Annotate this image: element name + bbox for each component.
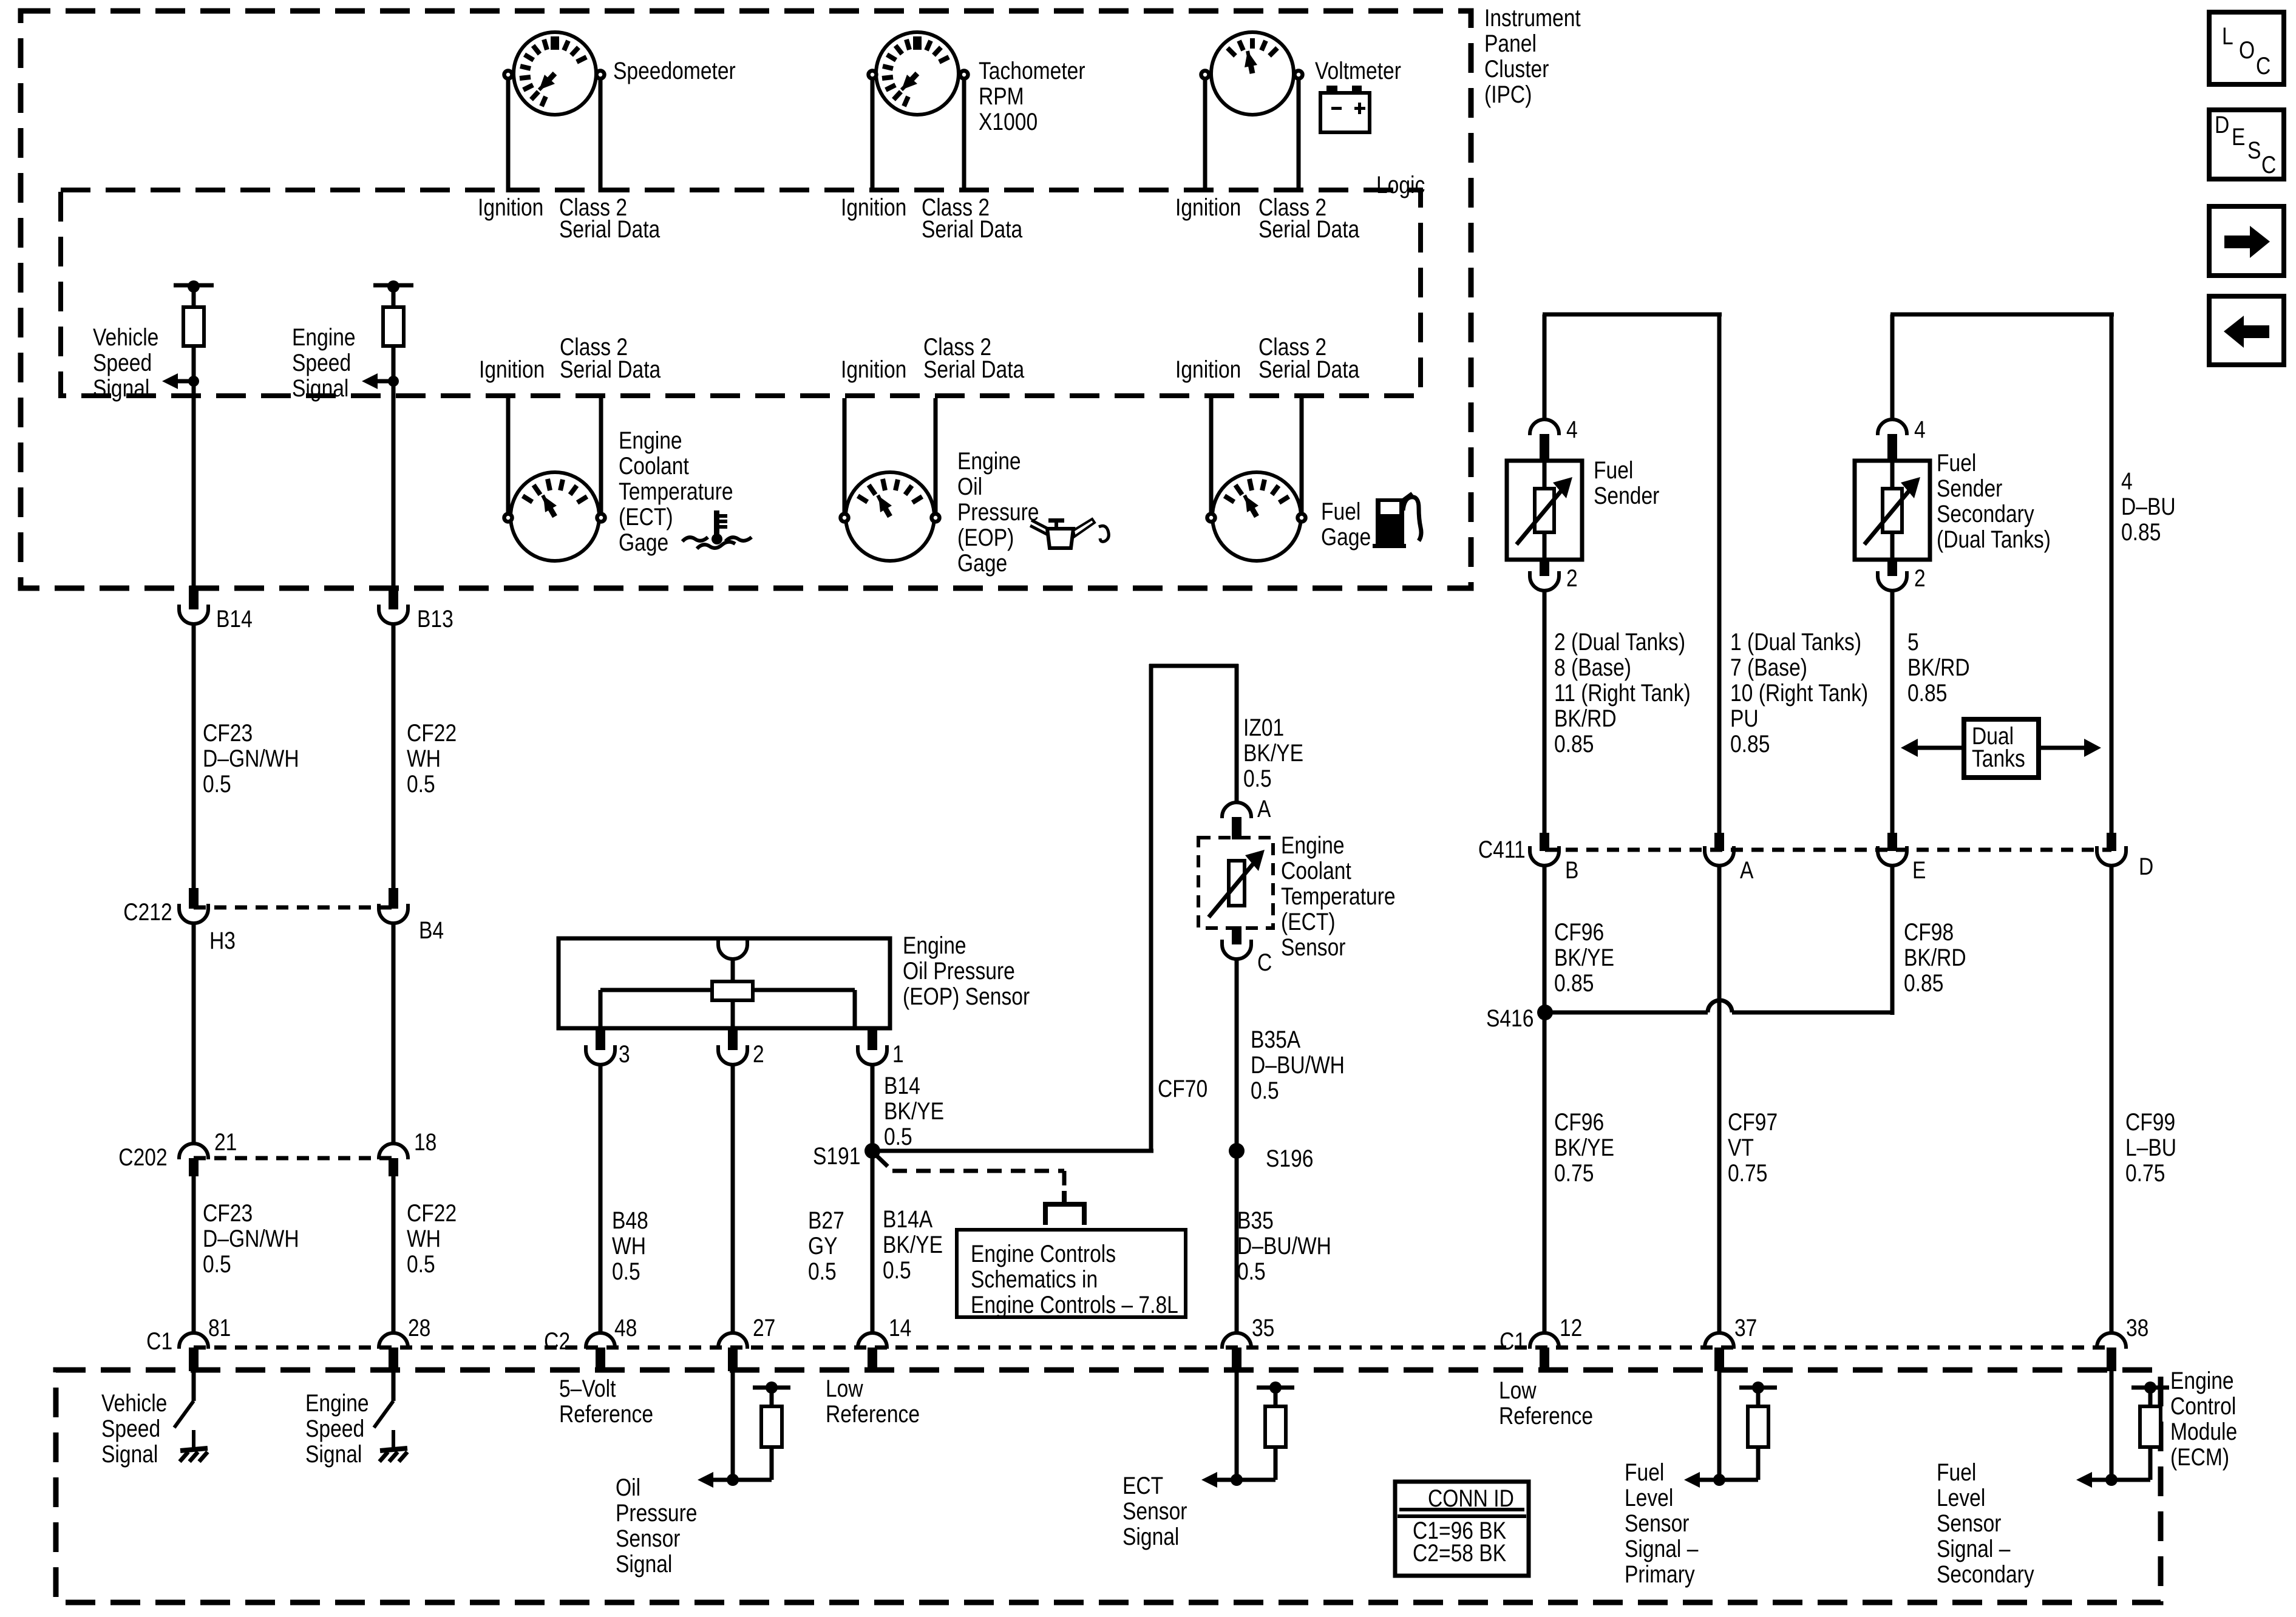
wire ECT gage right xyxy=(599,398,603,513)
label wire B35 xyxy=(1237,1208,1331,1284)
label CF70 xyxy=(1158,1076,1207,1102)
connector C411 A stub xyxy=(1714,833,1724,851)
label Ignition (tachometer) xyxy=(841,195,906,220)
label Engine Speed Signal (IPC) xyxy=(292,325,356,401)
oil pressure sensor signal arrow line xyxy=(712,1478,733,1482)
label EOP pin 1 xyxy=(892,1042,904,1067)
connector C212 B4 stub xyxy=(389,888,398,909)
wire EOP gage left xyxy=(843,398,847,513)
wire EOP internal left xyxy=(600,988,712,992)
label Oil Pressure Sensor Signal xyxy=(616,1475,697,1577)
connector C411 A cup xyxy=(1705,846,1734,866)
oil pressure sensor signal junction dot xyxy=(727,1474,739,1486)
label wire 2 dual tanks BK/RD xyxy=(1554,629,1691,757)
ECT gage xyxy=(511,472,599,561)
label Vehicle Speed Signal (IPC) xyxy=(93,325,158,401)
label wire 4 D-BU xyxy=(2121,469,2176,545)
wire oil pressure sensor signal resistor down xyxy=(770,1447,774,1480)
label Engine Coolant Temperature (ECT) Gage xyxy=(619,428,733,555)
label LOC letters xyxy=(2222,24,2233,49)
wire voltmeter right xyxy=(1297,80,1301,192)
connector C1 pin28 cap xyxy=(379,1333,408,1349)
EOP pin 2 cup xyxy=(718,1045,747,1065)
EOP sensor box xyxy=(559,938,890,1028)
connector C2 pin14 cap xyxy=(858,1333,887,1349)
voltmeter right terminal xyxy=(1295,71,1303,79)
wire vehicle speed resistor down xyxy=(192,346,196,588)
label Tachometer RPM X1000 xyxy=(979,58,1085,135)
wire vehicle speed T-bar to resistor xyxy=(192,287,196,307)
label pin B4 xyxy=(419,918,444,943)
fuel level primary internal T-bar xyxy=(1739,1386,1777,1390)
label Fuel Gage xyxy=(1321,499,1371,550)
label pin A (C411) xyxy=(1740,858,1753,883)
label B13 xyxy=(417,606,453,632)
label pin 18 xyxy=(414,1130,436,1155)
wire fuel level secondary T-bar to resistor xyxy=(2148,1388,2153,1406)
wire fuel sender pin2 to C411 xyxy=(1543,591,1547,833)
label Ignition (ECT gage) xyxy=(479,357,545,382)
connector C2 pin14 stub xyxy=(868,1347,877,1371)
wire CF22 C212 to C202 xyxy=(392,923,396,1145)
label pin E xyxy=(1912,858,1926,883)
DESC box xyxy=(2209,110,2284,179)
oil pressure sensor signal T-bar dot xyxy=(766,1381,778,1394)
wire S191 to CF70 riser xyxy=(872,1149,1153,1153)
ECM dashed box (Engine Control Module) xyxy=(56,1370,2161,1602)
voltmeter gauge xyxy=(1211,32,1294,115)
label wire B14A xyxy=(883,1207,943,1283)
wire tachometer right xyxy=(962,80,966,192)
fuel level secondary arrow head xyxy=(2076,1472,2092,1488)
connector C411 dotted line xyxy=(1545,848,2111,852)
label EOP pin 3 xyxy=(619,1042,630,1067)
label S191 xyxy=(813,1144,860,1169)
label wire B35A xyxy=(1251,1027,1345,1103)
wire CF99 D to C1 xyxy=(2110,866,2114,1335)
connector C cup xyxy=(1222,940,1251,959)
label pin 27 xyxy=(753,1315,775,1341)
connector C202 pin21 stub xyxy=(189,1158,199,1176)
wire B27 pin2 to C2 xyxy=(731,1065,735,1335)
label Low Reference (pin12) xyxy=(1499,1378,1593,1429)
wire CF70 top link xyxy=(1149,664,1238,668)
dual tanks box xyxy=(1964,719,2039,778)
label Engine Oil Pressure (EOP) Sensor xyxy=(903,933,1030,1009)
label ECT Sensor Signal xyxy=(1123,1473,1187,1550)
label Dual Tanks xyxy=(1972,725,2025,770)
wire pin81 into ECM xyxy=(192,1371,196,1401)
connector C1/C2 dotted line xyxy=(194,1346,2111,1350)
connector C212 dotted line xyxy=(194,906,393,910)
ECT sensor signal arrow head xyxy=(1201,1472,1217,1488)
wire S416 bus left xyxy=(1545,1011,1708,1015)
wire EOP internal center down xyxy=(731,1000,735,1028)
wire CF70 riser xyxy=(1149,664,1153,1151)
connector C202 pin18 cap xyxy=(379,1144,408,1159)
fuel level secondary internal T-bar xyxy=(2131,1386,2169,1390)
connector C2 pin27 stub xyxy=(728,1347,738,1371)
resistor EOP sensor element xyxy=(712,981,753,1000)
label wire CF22 middle xyxy=(407,1201,457,1277)
label pin C xyxy=(1257,950,1272,975)
label Ignition (speedometer) xyxy=(478,195,543,220)
wire CF23 B14 to C212 xyxy=(192,624,196,888)
connector C212 B4 cup xyxy=(379,904,408,923)
Logic dashed box xyxy=(61,190,1421,396)
EOP sensor top cup xyxy=(718,940,747,959)
wire CF23 C212 to C202 xyxy=(192,923,196,1145)
connector C2 pin27 cap xyxy=(718,1333,747,1349)
oil can icon xyxy=(1047,529,1073,548)
fuel sender box xyxy=(1507,461,1582,560)
fuel sender top loop xyxy=(1543,313,1722,317)
label Class 2 (ECT gage) xyxy=(560,334,628,360)
label Voltmeter xyxy=(1315,58,1401,84)
vehicle speed signal switch xyxy=(174,1401,194,1428)
resistor engine speed signal xyxy=(383,307,404,346)
label pin B xyxy=(1565,858,1578,883)
speedometer left terminal xyxy=(504,71,512,79)
label Class 2 (EOP gage) xyxy=(923,334,991,360)
label wire CF96 0.75 xyxy=(1554,1110,1614,1186)
fuel sender wire through xyxy=(1543,461,1547,560)
speedometer right terminal xyxy=(597,71,605,79)
connector A cap xyxy=(1222,802,1251,818)
label C2 xyxy=(544,1329,570,1354)
EOP pin 3 stub xyxy=(596,1028,605,1050)
label Fuel Sender Secondary xyxy=(1937,450,2051,552)
label wire IZ01 xyxy=(1243,715,1303,792)
vehicle speed signal junction dot xyxy=(188,376,199,387)
wire EOP gage right xyxy=(934,398,938,513)
wire CF96 to S416 xyxy=(1543,866,1547,1012)
label pin 35 xyxy=(1252,1315,1274,1341)
ECT sensor variable resistor xyxy=(1229,861,1245,906)
dual tanks right arrow xyxy=(2039,746,2088,750)
engine speed signal switch xyxy=(374,1401,393,1428)
connector C1 pin12 cap xyxy=(1530,1333,1559,1349)
connector C2 pin48 stub xyxy=(596,1347,605,1371)
wire fuel level secondary resistor down xyxy=(2148,1447,2153,1480)
wire ECT sensor signal resistor down xyxy=(1274,1447,1278,1480)
resistor oil pressure sensor signal pull-up xyxy=(761,1406,782,1447)
label wire CF97 0.75 xyxy=(1728,1110,1778,1186)
wire fuel gage left xyxy=(1209,398,1214,513)
connector A stub xyxy=(1232,817,1241,839)
fuel gage xyxy=(1212,472,1301,561)
connector C stub xyxy=(1232,926,1241,944)
fuel level primary arrow line xyxy=(1699,1478,1719,1482)
fuel level primary junction dot xyxy=(1713,1474,1725,1486)
label pin 12 xyxy=(1560,1315,1582,1341)
label Fuel Level Sensor Signal Primary xyxy=(1625,1460,1698,1587)
fuel level secondary arrow line xyxy=(2091,1478,2111,1482)
EOP pin 1 stub xyxy=(868,1028,877,1050)
vehicle speed signal arrow head xyxy=(162,373,178,389)
label Class 2 Serial Data (speedometer) xyxy=(559,195,627,220)
fuel sender secondary pin 2 cup xyxy=(1878,571,1907,591)
vehicle speed ground lead xyxy=(192,1430,195,1451)
label Fuel Level Sensor Signal Secondary xyxy=(1937,1460,2034,1587)
label pin 38 xyxy=(2126,1315,2148,1341)
wire EOP cup to resistor xyxy=(731,959,735,981)
speedometer gauge xyxy=(514,32,596,115)
engine speed signal T-bar xyxy=(373,283,413,288)
connector C411 E stub xyxy=(1887,833,1897,851)
label S196 xyxy=(1266,1146,1313,1171)
fuel sender secondary box xyxy=(1855,461,1930,560)
splice S191 dot xyxy=(864,1143,880,1159)
connector B13 cup xyxy=(379,605,408,624)
tachometer gauge xyxy=(876,32,959,115)
S191 dashed reference line xyxy=(877,1156,892,1171)
label EOP pin 2 xyxy=(753,1042,764,1067)
EOP pin 1 cup xyxy=(858,1045,887,1065)
label Vehicle Speed Signal (ECM) xyxy=(101,1391,167,1467)
connector C1 pin12 stub xyxy=(1540,1347,1549,1371)
label pin 37 xyxy=(1734,1315,1757,1341)
wire S416 bus right xyxy=(1732,1011,1892,1015)
label C1 left xyxy=(146,1329,172,1354)
wire ECT gage left xyxy=(506,398,511,513)
label pin 48 xyxy=(614,1315,637,1341)
fuel sender secondary pin 4 cap xyxy=(1878,419,1907,435)
wire CF96 S416 to C1 xyxy=(1543,1012,1547,1335)
wire oil pressure sensor signal T-bar to resistor xyxy=(770,1388,774,1406)
engine speed signal arrow line xyxy=(374,379,393,384)
label wire CF23 upper xyxy=(203,720,299,797)
connector C1 pin38 cap xyxy=(2097,1333,2126,1349)
resistor fuel level primary pull-up xyxy=(1748,1406,1768,1447)
wire voltmeter left xyxy=(1203,80,1207,192)
voltmeter left terminal xyxy=(1201,71,1209,79)
wire fuel level secondary pin into ECM xyxy=(2110,1371,2114,1480)
fuel sender pin 2 cup xyxy=(1530,571,1559,591)
wire ECT sensor signal bottom link xyxy=(1237,1478,1275,1482)
label Instrument Panel Cluster (IPC) xyxy=(1484,5,1581,107)
connector C1 pin28 stub xyxy=(389,1347,398,1371)
engine controls reference box xyxy=(957,1230,1186,1317)
fuel sender secondary pin 2 stub xyxy=(1887,560,1897,576)
splice S196 dot xyxy=(1229,1143,1245,1159)
label pin A xyxy=(1257,796,1271,822)
wire pin2 secondary to C411 xyxy=(1890,591,1895,833)
wire pin28 into ECM xyxy=(392,1371,396,1401)
fuel level secondary T-bar dot xyxy=(2144,1381,2156,1394)
ECT gage right terminal xyxy=(597,514,605,522)
fuel sender secondary variable resistor xyxy=(1883,489,1902,532)
fuel gage left terminal xyxy=(1207,514,1215,522)
fuel sender variable resistor xyxy=(1535,489,1554,532)
battery icon xyxy=(1320,93,1370,132)
tachometer left terminal xyxy=(869,71,877,79)
label B14 xyxy=(216,606,253,632)
label secondary sender pin 4 xyxy=(1914,417,1926,442)
label Serial Data (ECT gage) xyxy=(560,357,661,382)
label wire CF99 0.75 xyxy=(2125,1110,2176,1186)
label sender pin 2 xyxy=(1566,566,1578,591)
fuel sender secondary wire through xyxy=(1890,461,1895,560)
connector C1 pin81 stub xyxy=(189,1347,199,1371)
tachometer right terminal xyxy=(960,71,968,79)
wire B35A C to S196 xyxy=(1235,959,1239,1335)
fuel sender pin 4 stub xyxy=(1540,434,1549,461)
connector C212 H3 stub xyxy=(189,888,199,909)
wire IZ01 top xyxy=(1235,664,1239,804)
label Engine Speed Signal (ECM) xyxy=(305,1391,369,1467)
connector C202 dotted line xyxy=(194,1156,393,1161)
wire fuel level primary pin into ECM xyxy=(1717,1371,1722,1480)
fuel sender secondary top loop xyxy=(1890,313,2114,317)
resistor fuel level secondary pull-up xyxy=(2140,1406,2161,1447)
label CONN ID header xyxy=(1428,1486,1514,1511)
resistor ECT sensor signal pull-up xyxy=(1265,1406,1286,1447)
fuel gage right terminal xyxy=(1298,514,1306,522)
wire fuel level primary resistor down xyxy=(1756,1447,1761,1480)
connector C1 pin38 stub xyxy=(2107,1347,2116,1371)
connector C1 pin37 cap xyxy=(1705,1333,1734,1349)
label Serial Data (fuel gage) xyxy=(1258,357,1359,382)
label C411 xyxy=(1478,837,1526,863)
ECT sensor signal arrow line xyxy=(1216,1478,1237,1482)
label secondary sender pin 2 xyxy=(1914,566,1926,591)
label wire B27 xyxy=(808,1208,844,1284)
connector B14 stub xyxy=(189,586,199,609)
connector C1 pin81 cap xyxy=(179,1333,208,1349)
label pin 21 xyxy=(214,1130,237,1155)
coolant temperature icon xyxy=(714,510,719,536)
EOP pin 3 cup xyxy=(586,1045,615,1065)
label Engine Oil Pressure (EOP) Gage xyxy=(957,449,1039,576)
label wire CF23 middle xyxy=(203,1201,299,1277)
label DESC letters xyxy=(2215,112,2229,138)
label wire B14 BK/YE xyxy=(884,1073,944,1150)
wire EOP internal right xyxy=(753,988,855,992)
wire speedometer right to logic line xyxy=(599,80,603,192)
wire hop over CF97 xyxy=(1708,1000,1732,1012)
connector B14 cup xyxy=(179,605,208,624)
oil pressure sensor signal arrow head xyxy=(698,1472,713,1488)
label C212 xyxy=(124,900,172,925)
connector C411 D stub xyxy=(2107,833,2116,851)
label Class 2 Serial Data (voltmeter) xyxy=(1258,195,1326,220)
label wire CF22 upper xyxy=(407,720,457,797)
label Ignition (EOP gage) xyxy=(841,357,906,382)
label Class 2 Serial Data (tachometer) xyxy=(922,195,990,220)
label CONN ID table rows xyxy=(1413,1520,1506,1565)
wire ECT sensor signal pin into ECM xyxy=(1235,1371,1239,1480)
connector C411 B cup xyxy=(1530,846,1559,866)
engine speed signal arrow head xyxy=(362,373,378,389)
label C202 xyxy=(119,1145,168,1170)
ECT sensor signal internal T-bar xyxy=(1257,1386,1294,1390)
connector C2 pin48 cap xyxy=(586,1333,615,1349)
label Engine Coolant Temperature (ECT) Sensor xyxy=(1281,833,1396,960)
vehicle speed signal T-bar xyxy=(174,283,214,288)
label Fuel Sender xyxy=(1594,458,1659,509)
back arrow box xyxy=(2209,296,2284,365)
label pin 14 xyxy=(889,1315,911,1341)
label engine controls reference xyxy=(971,1241,1178,1318)
wire engine speed T-bar to resistor xyxy=(392,287,396,307)
fuel level secondary junction dot xyxy=(2105,1474,2118,1486)
ground symbol (engine speed) xyxy=(380,1448,407,1451)
wire oil pressure sensor signal bottom link xyxy=(733,1478,772,1482)
forward arrow box xyxy=(2209,206,2284,276)
wire fuel level primary T-bar to resistor xyxy=(1756,1388,1761,1406)
CONN ID table box xyxy=(1395,1482,1529,1576)
engine speed ground lead xyxy=(392,1430,395,1451)
label pin H3 xyxy=(209,928,236,954)
connector C202 pin18 stub xyxy=(389,1158,398,1176)
EOP gage left terminal xyxy=(841,514,849,522)
wire CF22 C202 to C1 xyxy=(392,1176,396,1335)
label C1 right xyxy=(1500,1329,1526,1354)
label wire 5 BK/RD xyxy=(1907,629,1970,706)
wire oil pressure sensor signal pin into ECM xyxy=(731,1371,735,1480)
label 5-Volt Reference xyxy=(559,1376,653,1427)
resistor vehicle speed signal xyxy=(183,307,204,346)
label Low Reference (pin14) xyxy=(826,1376,920,1427)
vehicle speed signal arrow line xyxy=(174,379,194,384)
wire B48 pin3 to C2 xyxy=(599,1065,603,1335)
ECT gage left terminal xyxy=(504,514,512,522)
ground symbol (vehicle speed) xyxy=(180,1448,208,1451)
vehicle speed signal T-bar junction dot xyxy=(188,280,200,293)
label Ignition (fuel gage) xyxy=(1175,357,1241,382)
label wire CF98 0.85 xyxy=(1904,920,1966,996)
label wire CF96 0.85 xyxy=(1554,920,1614,996)
fuel sender secondary pin 4 stub xyxy=(1887,434,1897,461)
connector B13 stub xyxy=(389,586,398,609)
connector C411 D cup xyxy=(2097,846,2126,866)
IPC dashed box (Instrument Panel Cluster) xyxy=(21,11,1471,588)
wire fuel gage right xyxy=(1300,398,1304,513)
fuel level primary arrow head xyxy=(1684,1472,1700,1488)
wire B14 pin1 to S191 xyxy=(871,1065,875,1335)
label pin D xyxy=(2139,854,2153,880)
engine speed signal T-bar junction dot xyxy=(387,280,399,293)
connector C411 E cup xyxy=(1878,846,1907,866)
engine speed signal junction dot xyxy=(388,376,399,387)
wire ECT sensor signal T-bar to resistor xyxy=(1274,1388,1278,1406)
EOP gage xyxy=(846,472,934,561)
wire CF97 to C1 xyxy=(1717,866,1722,1335)
reference bracket xyxy=(1045,1191,1084,1225)
LOC box xyxy=(2209,12,2284,84)
wire fuel level secondary bottom link xyxy=(2111,1478,2150,1482)
wire CF22 B13 to C212 xyxy=(392,624,396,888)
connector C1 pin37 stub xyxy=(1714,1347,1724,1371)
connector C2 pin35 stub xyxy=(1232,1347,1241,1371)
label Class 2 (fuel gage) xyxy=(1258,334,1326,360)
wire speedometer left to logic line xyxy=(506,80,511,192)
wire CF23 C202 to C1 xyxy=(192,1176,196,1335)
oil pressure sensor signal internal T-bar xyxy=(753,1386,790,1390)
wire engine speed resistor down xyxy=(392,346,396,588)
wire tachometer left xyxy=(871,80,875,192)
connector C411 B stub xyxy=(1540,833,1549,851)
label wire B48 xyxy=(612,1208,648,1284)
label Engine Control Module (ECM) xyxy=(2170,1368,2237,1470)
connector C202 pin21 cap xyxy=(179,1144,208,1159)
wire CF98 E to S416 bus xyxy=(1890,866,1895,1015)
connector C2 pin35 cap xyxy=(1222,1333,1251,1349)
label pin 81 xyxy=(208,1315,231,1341)
label Speedometer xyxy=(613,58,736,84)
EOP gage right terminal xyxy=(932,514,940,522)
